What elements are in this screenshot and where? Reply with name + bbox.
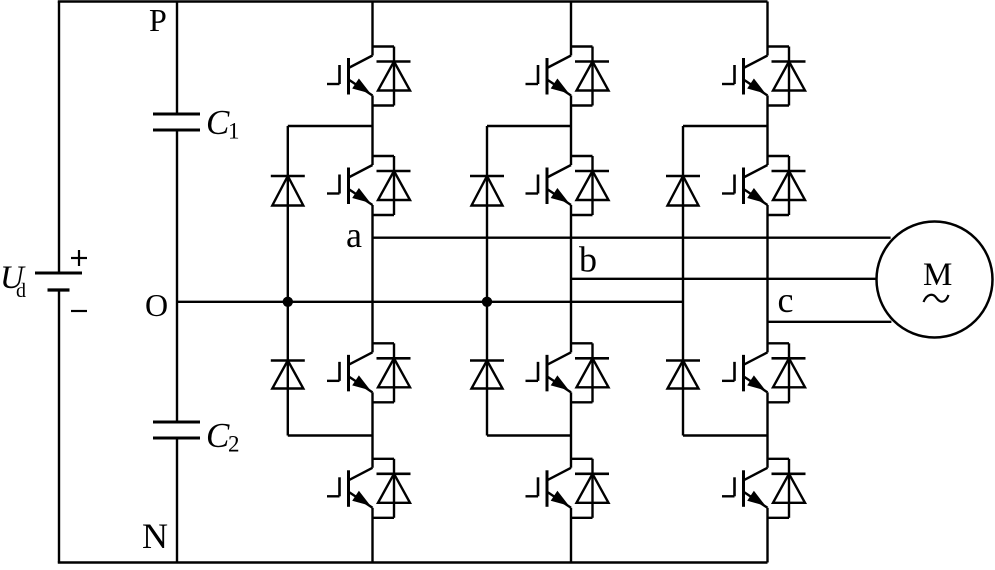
diode VDc2 (antiparallel) [768,156,806,215]
IGBT Vb1 [526,56,572,96]
label C1 [206,103,240,144]
wire left bus (battery branch) [58,2,60,563]
diode VDc1 (antiparallel) [768,47,806,106]
diode VDc3 (antiparallel) [768,343,806,402]
node b label [579,240,597,280]
wire phase c output [768,321,892,323]
IGBT Va3 [327,352,373,392]
node a label [346,215,362,255]
IGBT Va4 [327,468,373,508]
diode VDa1 (antiparallel) [373,47,411,106]
wire clamp branch phase b [487,126,571,436]
clamp diode Db1 (upper) [470,176,504,206]
motor M [877,222,993,338]
svg-text:2: 2 [228,432,240,457]
label Ud [0,260,26,302]
diode VDb4 (antiparallel) [571,459,609,518]
capacitor C2 [153,422,200,438]
svg-text:c: c [778,280,794,320]
wire neutral line O [177,301,683,303]
diode VDb3 (antiparallel) [571,343,609,402]
svg-text:C: C [206,103,230,142]
wire phase a output [373,236,891,238]
wire bottom rail N [58,561,768,563]
svg-text:C: C [206,416,230,455]
IGBT Vb2 [526,165,572,205]
label C2 [206,416,240,457]
wire phase c leg [766,2,768,563]
IGBT Vb3 [526,352,572,392]
diode VDa3 (antiparallel) [373,343,411,402]
wire DC midpoint rail P-N [176,2,178,563]
capacitor C1 [153,114,200,130]
clamp diode Db2 (lower) [470,361,504,389]
svg-text:N: N [142,516,168,556]
wire phase b output [571,278,877,280]
diode VDa4 (antiparallel) [373,459,411,518]
clamp diode Da1 (upper) [271,176,305,206]
svg-text:M: M [923,257,952,293]
IGBT Vc2 [722,165,768,205]
diode VDa2 (antiparallel) [373,156,411,215]
wire top rail P [58,0,768,2]
node c label [778,280,794,320]
IGBT Vc4 [722,468,768,508]
wire phase a leg [371,2,373,563]
battery Ud [35,273,82,290]
diode VDb1 (antiparallel) [571,47,609,106]
svg-text:P: P [149,2,167,38]
clamp diode Da2 (lower) [271,361,305,389]
IGBT Va1 [327,56,373,96]
svg-text:a: a [346,215,362,255]
battery minus sign [71,310,87,312]
IGBT Vc1 [722,56,768,96]
IGBT Vb4 [526,468,572,508]
clamp diode Dc2 (lower) [666,361,700,389]
node N label [142,516,168,556]
node O label [145,287,168,323]
svg-text:O: O [145,287,168,323]
wire clamp branch phase c [683,126,768,436]
IGBT Vc3 [722,352,768,392]
junction dot O / clamp b [482,297,492,307]
diode VDb2 (antiparallel) [571,156,609,215]
svg-text:b: b [579,240,597,280]
svg-text:d: d [16,280,26,302]
wire phase b leg [570,2,572,563]
battery plus sign [71,250,87,266]
IGBT Va2 [327,165,373,205]
svg-text:1: 1 [228,119,240,144]
clamp diode Dc1 (upper) [666,176,700,206]
node P label [149,2,167,38]
diode VDc4 (antiparallel) [768,459,806,518]
junction dot O / clamp a [283,297,293,307]
wire clamp branch phase a [288,126,373,436]
